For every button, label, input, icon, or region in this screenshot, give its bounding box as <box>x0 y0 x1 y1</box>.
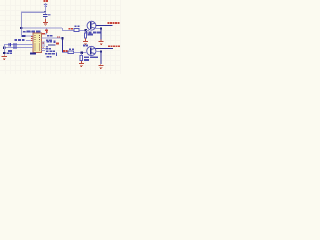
wire Q1 emitter right then down <box>95 28 101 29</box>
wire base into Q2 <box>83 52 87 53</box>
IC pin number digits inside body <box>34 35 40 51</box>
transistor Q2 collector/emitter lines <box>91 48 94 53</box>
red pin numbers right of IC <box>42 33 60 48</box>
text Q2 designator/value below circle (blue) <box>84 56 98 61</box>
power port red arrow on pin20 wire <box>45 30 48 33</box>
wire net stub y=44.9 right of IC <box>48 44 56 45</box>
capacitor C3 inline on xtal2 wire <box>14 46 17 49</box>
node junction top base (85.5,30.3) <box>85 29 87 31</box>
power symbol VCC bar <box>44 4 47 6</box>
ground GND bottom-left (red) <box>2 54 7 60</box>
transistor Q1 collector/emitter lines <box>92 23 95 28</box>
wire stub junction to pulldown <box>81 54 82 56</box>
wire horizontal top rail y=11.5 <box>21 12 46 13</box>
node corner (100.5,51) <box>100 50 102 52</box>
wire Q2 collector to net label (dark) <box>96 48 114 49</box>
wire vertical x=101 to ground <box>101 28 102 40</box>
wire base top cluster y=30.2 <box>62 30 74 31</box>
IC U1 body (AT89C2051) <box>33 33 42 52</box>
pin stub left y=38.4 <box>31 38 33 39</box>
node junction bottom base (81.5,52.6) <box>81 52 83 54</box>
node junction at (4,47.5) <box>3 47 5 49</box>
text net label left of pin (blue dashes) <box>15 39 25 41</box>
wire drop from rail to IC pin20 <box>46 28 47 34</box>
text net label top right (red) <box>107 22 119 24</box>
node corner dot at (62,38) <box>61 37 63 39</box>
text R value (blue) top cluster <box>75 25 80 27</box>
wire vertical x=100.5 to ground <box>100 51 101 64</box>
ground GND right top cluster (red) <box>99 40 104 45</box>
wire P3.7 y=37.9 to x=62 <box>45 38 63 39</box>
background <box>0 0 121 74</box>
text net labels right of IC (blue rows) <box>45 35 57 58</box>
text cap value (blue smudge) <box>48 14 51 16</box>
ground GND below cap (red) <box>43 19 48 26</box>
text U1 designator above IC (blue) <box>23 31 40 33</box>
resistor R vertical (base pulldown) top cluster <box>84 33 86 38</box>
node junction at (45,11.5) <box>44 11 46 13</box>
transistor Q1 base bar <box>90 22 91 29</box>
capacitor C (decoupling) plates <box>43 14 47 17</box>
node corner (101,28) <box>100 27 102 29</box>
transistor Q2 circle <box>87 46 96 55</box>
transistor Q1 circle <box>87 21 96 30</box>
text value right of pulldown (blue) <box>88 34 94 36</box>
transistor Q2 base bar <box>90 47 91 54</box>
wire stub junction to resistor <box>85 31 86 33</box>
wire XTAL1 y=44.5 <box>4 44 33 45</box>
wire vertical left x=21 <box>21 12 22 38</box>
wire resistor to junction <box>74 52 88 53</box>
pin 20 stub <box>42 34 47 35</box>
pin stub left y=40.5 <box>26 40 33 41</box>
wire vertical x=62 down to bottom cluster <box>62 38 63 53</box>
wire corner x=62 from rail y=28 down to y=30 <box>62 28 63 31</box>
node dot at (4,52.5) <box>3 52 5 54</box>
ground GND bottom right (red) <box>98 64 103 69</box>
wire RST pin y=36 from left rail <box>21 36 33 37</box>
wire XTAL2 y=47.5 <box>4 47 33 48</box>
text pulldown value (blue) bottom cluster <box>83 45 88 47</box>
red pin numbers left of IC <box>31 36 32 48</box>
text part number below IC (dark navy) <box>30 53 36 55</box>
resistor R (inline) bottom cluster <box>68 51 73 54</box>
ground GND below bottom pulldown (red) <box>79 61 84 67</box>
wire base into Q1 <box>86 30 89 31</box>
wire base bottom cluster y=52.6 <box>62 52 69 53</box>
resistor R vertical (base pulldown) bottom cluster <box>80 56 82 61</box>
text Q1 designator/value below circle (blue) <box>86 32 101 34</box>
ground GND below pulldown (red) <box>83 38 88 44</box>
crystal Y1 (vertical box) <box>8 43 11 46</box>
text net label bottom right (red) <box>108 45 120 47</box>
wire RST cap feed y=31.8 <box>23 31 34 34</box>
wire cap leads <box>45 13 46 15</box>
wire Q1 collector to net label (dark) <box>96 25 113 26</box>
wire resistor to base junction <box>80 30 89 31</box>
wire VCC rail y=28 to x=62 <box>21 28 62 29</box>
wire VCC vertical to junction <box>45 3 46 13</box>
wire vertical x=4 to ground <box>4 44 5 54</box>
text R value (blue) bottom cluster <box>69 48 74 50</box>
right pin stubs of IC <box>42 38 46 51</box>
wire Q2 emitter right then down <box>95 51 101 52</box>
text R? designator (red) bottom cluster <box>63 50 65 52</box>
power symbol VCC label (red text) <box>44 0 49 2</box>
junction on rst wire <box>22 35 26 37</box>
capacitor C2 inline on xtal1 wire <box>14 43 17 46</box>
node junction at (21,28) <box>20 27 22 29</box>
text R? designator (red) top cluster <box>69 28 71 30</box>
resistor R (inline) top cluster <box>74 29 79 32</box>
text crystal value (blue) <box>6 50 12 54</box>
